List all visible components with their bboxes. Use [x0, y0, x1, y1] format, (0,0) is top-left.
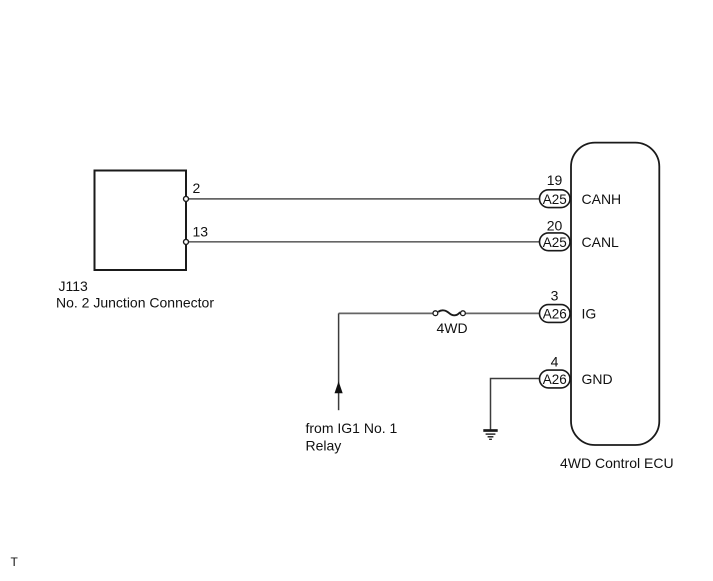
svg-text:T: T: [11, 555, 19, 569]
svg-text:CANH: CANH: [582, 191, 622, 207]
svg-text:CANL: CANL: [582, 234, 620, 250]
svg-text:A25: A25: [543, 235, 567, 250]
junction connector J113 box: [95, 171, 187, 271]
node pin 2 circle: [184, 196, 189, 201]
wire GND jog: [491, 379, 541, 430]
4WD Control ECU body: [571, 143, 659, 445]
connector A26 pin 3 oval: [540, 305, 571, 323]
svg-text:4WD: 4WD: [436, 320, 467, 336]
connector A26 pin 4 oval: [540, 370, 571, 388]
svg-text:from IG1 No. 1: from IG1 No. 1: [306, 420, 398, 436]
arrowhead from relay: [335, 381, 343, 393]
connector A25 pin 19 oval: [540, 190, 571, 208]
ground symbol: [483, 431, 497, 440]
wire relay vertical: [338, 313, 340, 410]
fuse 4WD element curve: [438, 310, 460, 315]
svg-text:19: 19: [547, 172, 563, 188]
node pin 13 circle: [184, 239, 189, 244]
svg-text:4WD Control ECU: 4WD Control ECU: [560, 455, 674, 471]
svg-text:A26: A26: [543, 307, 567, 322]
svg-text:13: 13: [193, 223, 209, 239]
svg-text:J113: J113: [59, 278, 89, 294]
svg-text:A26: A26: [543, 372, 567, 387]
svg-text:4: 4: [551, 353, 559, 369]
wire IG left segment: [339, 312, 433, 314]
wire CANH: [188, 198, 540, 200]
svg-text:20: 20: [547, 217, 563, 233]
fuse 4WD right circle: [461, 311, 466, 316]
svg-text:GND: GND: [582, 371, 613, 387]
svg-text:3: 3: [551, 287, 559, 303]
svg-text:IG: IG: [582, 305, 597, 321]
fuse 4WD left circle: [433, 311, 438, 316]
svg-text:Relay: Relay: [306, 437, 342, 453]
wire CANL: [188, 241, 540, 243]
svg-text:2: 2: [193, 180, 201, 196]
svg-text:A25: A25: [543, 192, 567, 207]
connector A25 pin 20 oval: [540, 233, 571, 251]
svg-text:No. 2 Junction Connector: No. 2 Junction Connector: [56, 295, 214, 311]
wire IG right segment: [465, 312, 540, 314]
